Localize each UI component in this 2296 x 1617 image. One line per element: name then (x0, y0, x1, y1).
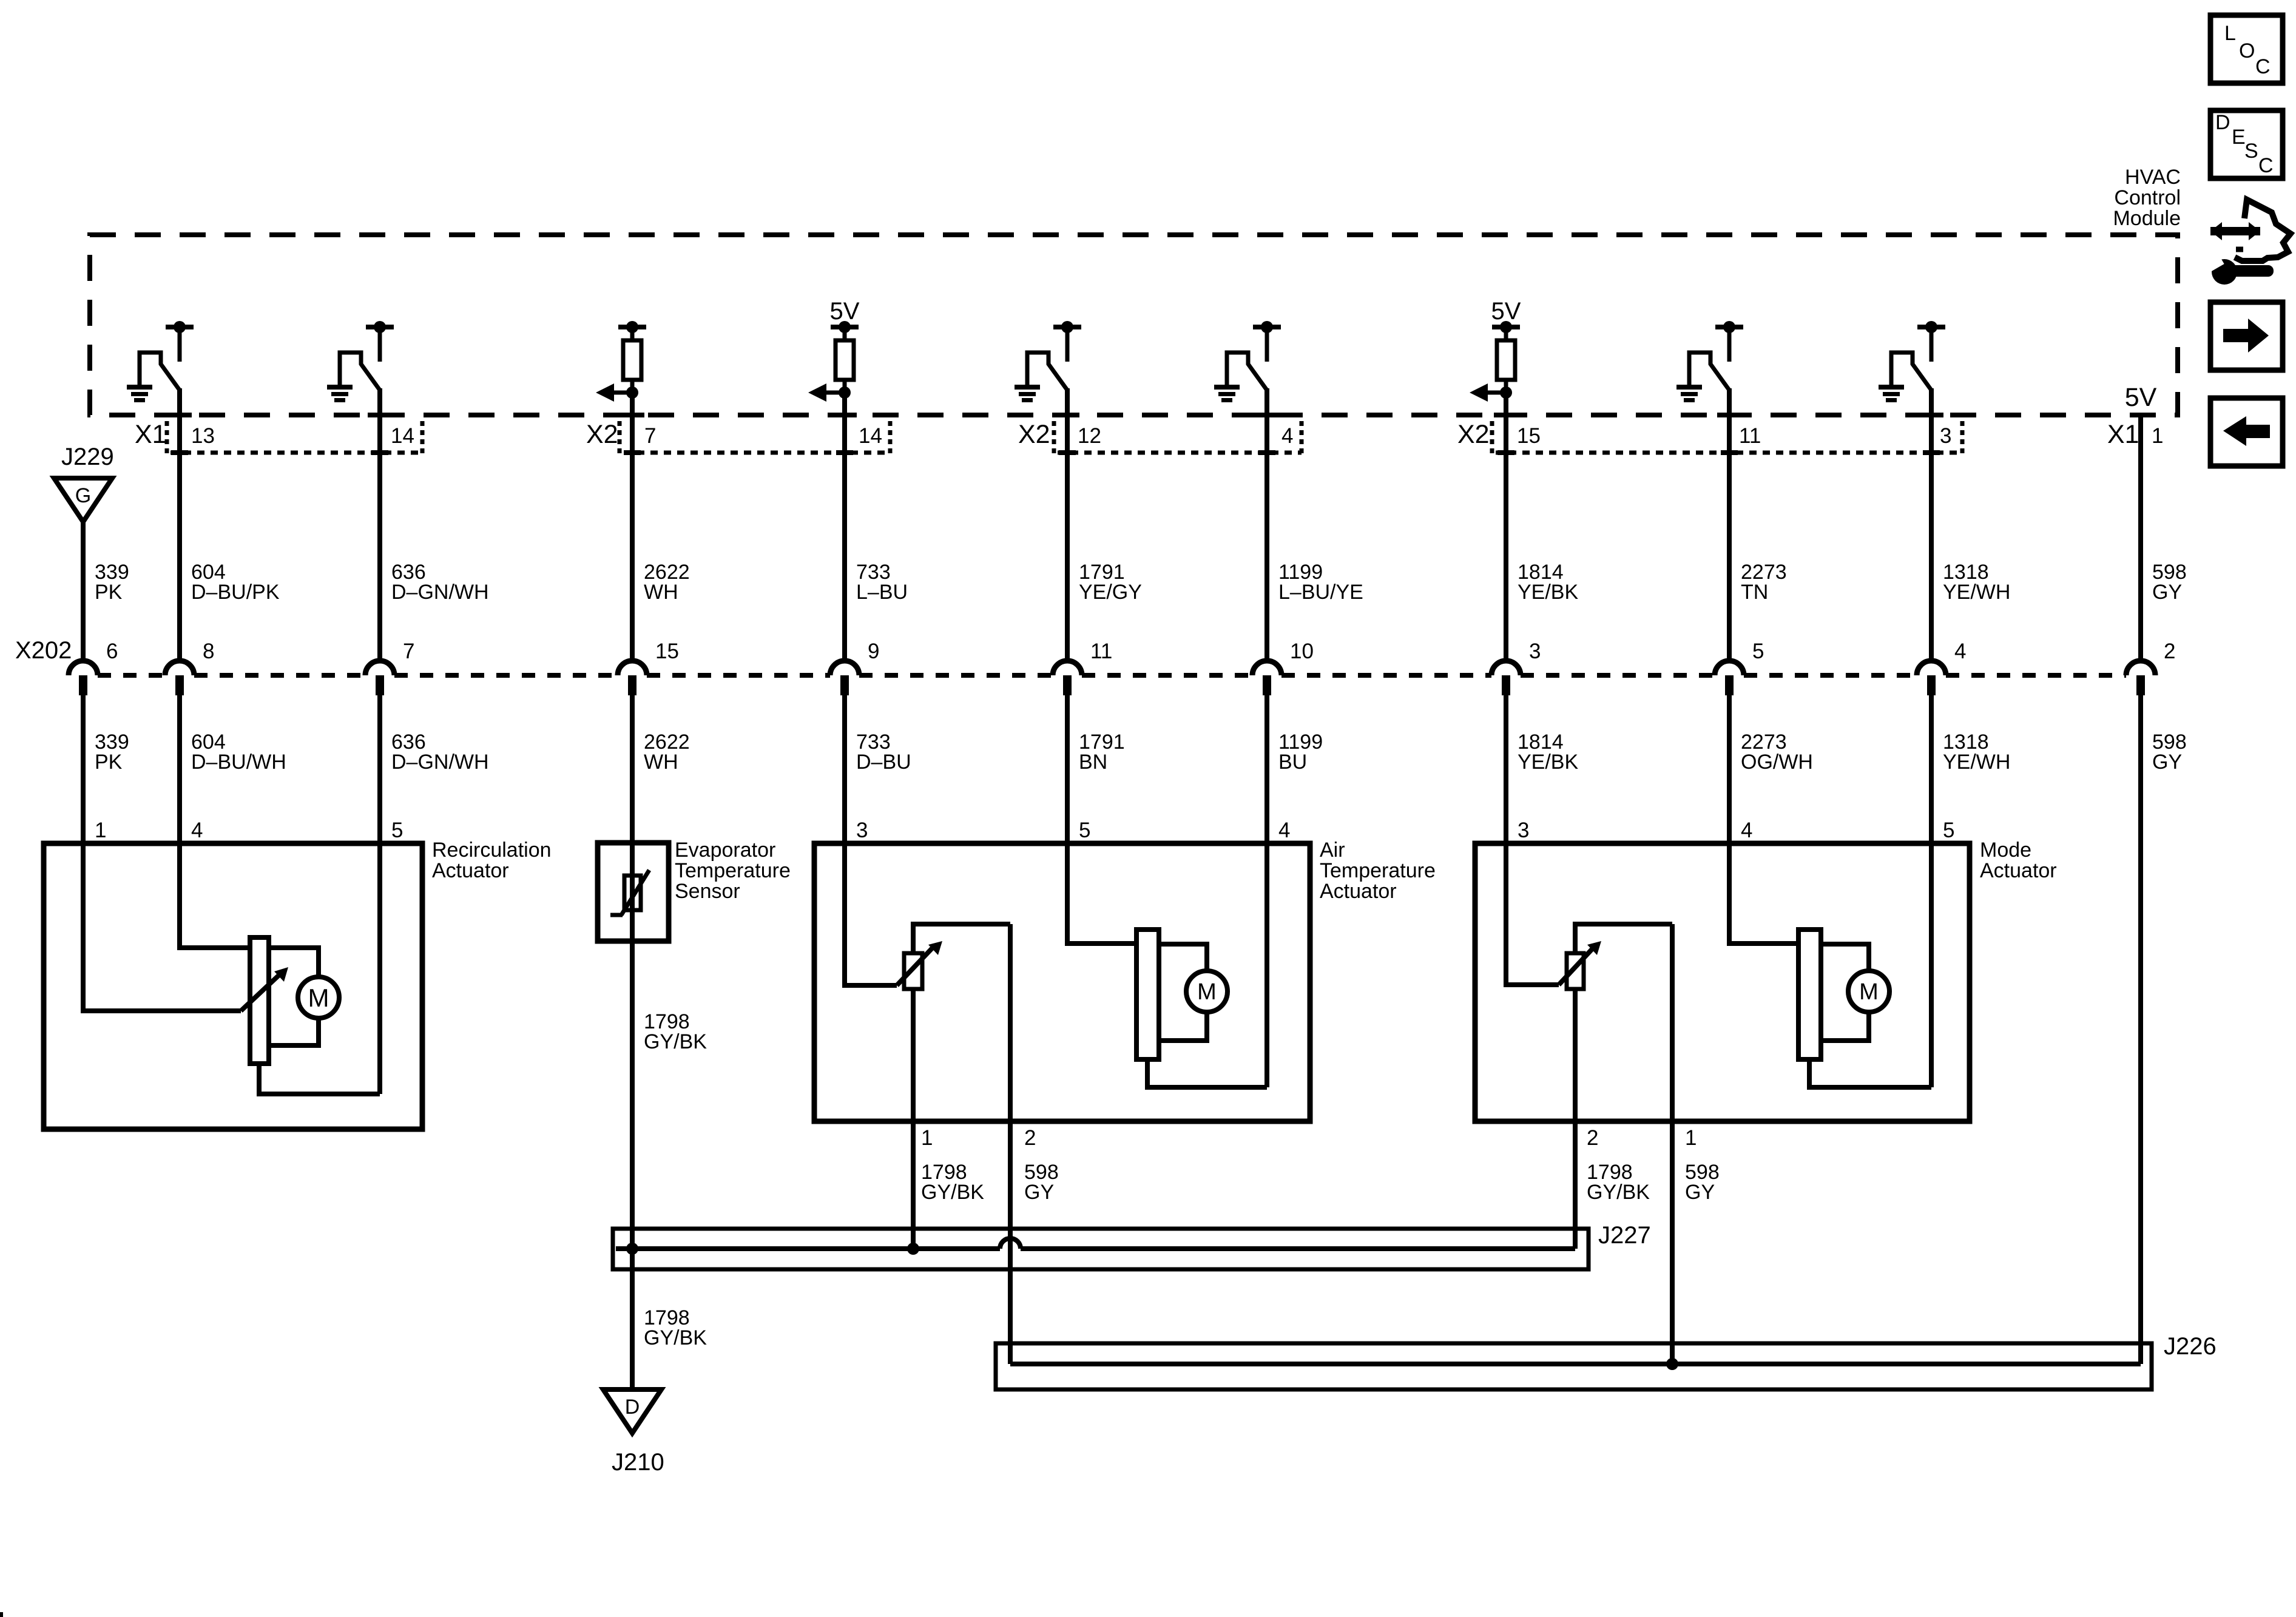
wire 636 D–GN/WH from X202 down (377, 695, 382, 843)
mode pin 1 wire (598 GY) (1670, 924, 1675, 1364)
R2 signal junction dot (839, 387, 851, 399)
svg-text:Actuator: Actuator (1320, 880, 1397, 903)
J227 junction dot (1798 GY/BK evaporator) (626, 1243, 638, 1255)
S6 switch blade (1891, 353, 1931, 390)
label 598 GY (mode pin 1) (1685, 1161, 1720, 1204)
wire 1199 BU from X202 down (1264, 695, 1269, 843)
mode pin 5 wire (1929, 843, 1934, 1087)
svg-text:TN: TN (1741, 581, 1768, 604)
svg-text:13: 13 (191, 424, 215, 448)
svg-text:1: 1 (2152, 424, 2163, 448)
air temp pin 4 wire (1264, 843, 1269, 1087)
wire 1798 GY/BK from evaporator sensor (630, 941, 635, 1389)
label 2622 WH (upper) (644, 561, 690, 604)
X202 terminal 5 (wire 2273 TN) (1715, 661, 1744, 695)
mode motor feed wire (pin 4) (1729, 843, 1798, 944)
svg-text:C: C (2255, 55, 2271, 78)
air temp motor feed wire (pin 5) (1067, 843, 1136, 944)
air temp motor M2 motor loop wires (1159, 944, 1207, 972)
svg-text:BU: BU (1278, 751, 1307, 774)
DESC icon box (2210, 110, 2283, 178)
svg-text:14: 14 (859, 424, 882, 448)
label 604 D–BU/PK (upper) (191, 561, 280, 604)
svg-text:1: 1 (921, 1126, 933, 1150)
svg-text:Temperature: Temperature (1320, 859, 1436, 882)
svg-text:5: 5 (1943, 819, 1954, 842)
svg-text:Air: Air (1320, 839, 1345, 862)
air temp motor M2 motor M (1186, 971, 1227, 1012)
Mode Actuator label (1980, 839, 2057, 882)
svg-text:GY/BK: GY/BK (1587, 1181, 1650, 1204)
label 1814 YE/BK (upper) (1518, 561, 1578, 604)
S2 wire to pin (377, 388, 382, 417)
R1 signal out arrow (614, 391, 632, 395)
S1 wire to pin (177, 388, 182, 417)
svg-text:GY: GY (2152, 581, 2182, 604)
svg-text:3: 3 (856, 819, 868, 842)
R2 signal out arrow (826, 391, 845, 395)
svg-text:BN: BN (1079, 751, 1107, 774)
R1 resistor body (630, 329, 635, 341)
recirc wiper arrow (241, 967, 288, 1011)
svg-text:L–BU/YE: L–BU/YE (1278, 581, 1363, 604)
S3 switch stub (1065, 329, 1070, 362)
svg-text:Actuator: Actuator (1980, 859, 2057, 882)
wire 339 PK from X202 down (81, 695, 86, 843)
mode wiper arrow (1559, 948, 1593, 985)
Air Temperature Actuator label (1320, 839, 1436, 903)
svg-text:GY: GY (1024, 1181, 1054, 1204)
label 1318 YE/WH (lower) (1943, 731, 2010, 774)
S1 ground symbol (127, 385, 152, 390)
R1 signal junction dot (626, 387, 638, 399)
svg-text:G: G (75, 484, 91, 507)
svg-text:5V: 5V (830, 298, 860, 325)
HVAC Control Module box U1 (dashed outline) (90, 235, 2178, 415)
svg-text:15: 15 (1517, 424, 1541, 448)
forward arrow icon box (2210, 302, 2283, 370)
wire 733 D–BU from X202 down (842, 695, 847, 843)
LOC icon box (2210, 15, 2283, 83)
svg-text:GY/BK: GY/BK (644, 1030, 707, 1053)
label 339 PK (upper) (95, 561, 129, 604)
R3 wire to pin (1504, 393, 1508, 417)
S5 supply bar (1715, 325, 1743, 329)
label 2273 TN (upper) (1741, 561, 1787, 604)
S5 switch stub (1727, 329, 1732, 362)
svg-text:J227: J227 (1598, 1222, 1651, 1249)
label 2622 WH (lower) (644, 731, 690, 774)
X202 terminal 7 (wire 636 D-GN/WH) (365, 661, 394, 695)
recirc pin 5 wire (377, 843, 382, 1094)
mode pot top wire to pin 1 (1575, 924, 1672, 953)
X202 terminal 3 (wire 1814 YE/BK) (1491, 661, 1521, 695)
svg-text:1: 1 (95, 819, 106, 842)
svg-text:D–BU: D–BU (856, 751, 911, 774)
S2 ground symbol (327, 385, 353, 390)
label 1199 BU (lower) (1278, 731, 1323, 774)
wire 2273 TN from module to X202 (1727, 415, 1732, 662)
label 636 D–GN/WH (lower) (391, 731, 489, 774)
svg-text:D: D (2215, 111, 2230, 134)
svg-text:2: 2 (1024, 1126, 1036, 1150)
svg-text:YE/BK: YE/BK (1518, 751, 1578, 774)
5V reference output (pin X1-1) (2125, 383, 2157, 417)
svg-text:J226: J226 (2164, 1333, 2217, 1360)
svg-text:M: M (1197, 979, 1217, 1005)
mode motor M3 armature element (1798, 930, 1821, 1059)
svg-text:X202: X202 (15, 637, 72, 664)
wire 2622 WH from X202 down (630, 695, 635, 843)
svg-text:C: C (2258, 154, 2274, 177)
recirc motor M1 (298, 977, 339, 1018)
svg-text:5V: 5V (1491, 298, 1521, 325)
switch S4 to ground (pin X2-4) (1214, 321, 1281, 417)
svg-text:WH: WH (644, 581, 678, 604)
S2 switch stub (378, 329, 382, 362)
S2 supply bar (366, 325, 394, 329)
HVAC Control Module label (2113, 166, 2181, 230)
svg-text:PK: PK (95, 581, 123, 604)
svg-text:3: 3 (1940, 424, 1951, 448)
svg-text:6: 6 (106, 640, 118, 663)
svg-text:5: 5 (391, 819, 403, 842)
X202 dashed harness line (98, 673, 2126, 678)
svg-text:WH: WH (644, 751, 678, 774)
thermistor symbol (610, 843, 649, 941)
svg-text:YE/BK: YE/BK (1518, 581, 1578, 604)
S3 supply bar (1053, 325, 1081, 329)
S4 wire to pin (1264, 388, 1269, 417)
svg-text:10: 10 (1290, 640, 1314, 663)
X1 connector dotted outline (167, 421, 422, 454)
svg-text:L–BU: L–BU (856, 581, 908, 604)
S5 wire to pin (1727, 388, 1732, 417)
recirc potentiometer element (250, 937, 269, 1064)
svg-text:X1: X1 (135, 420, 167, 449)
wire 598 GY from X202 down (2138, 695, 2143, 1364)
svg-text:D–GN/WH: D–GN/WH (391, 751, 489, 774)
mode motor M3 motor M (1848, 971, 1889, 1012)
recirc pot return wire to pin 5 (259, 1064, 380, 1094)
label 598 GY (air temp pin 2) (1024, 1161, 1059, 1204)
pull-up resistor R3 with 5V (pin X2-15) (1470, 298, 1521, 417)
svg-text:HVAC: HVAC (2125, 166, 2181, 189)
S4 switch blade (1227, 353, 1267, 390)
svg-text:GY: GY (2152, 751, 2182, 774)
X202 terminal 9 (wire 733 L-BU) (830, 661, 859, 695)
J226 junction dot (mode pin 1 598 GY) (1666, 1358, 1678, 1370)
svg-text:4: 4 (191, 819, 203, 842)
S5 ground symbol (1676, 385, 1702, 390)
label 733 D–BU (lower) (856, 731, 911, 774)
S6 ground symbol (1879, 385, 1904, 390)
wire 1318 YE/WH from X202 down (1929, 695, 1934, 843)
ground J210 (603, 1389, 664, 1476)
svg-text:4: 4 (1281, 424, 1293, 448)
S3 ground symbol (1015, 385, 1040, 390)
svg-text:Mode: Mode (1980, 839, 2031, 862)
svg-text:OG/WH: OG/WH (1741, 751, 1813, 774)
air temp potentiometer element (904, 953, 922, 989)
svg-text:Sensor: Sensor (675, 880, 740, 903)
X2 connector dotted outline (pins 12,4) (1054, 421, 1302, 454)
X202 terminal 4 (wire 1318 YE/WH) (1917, 661, 1946, 695)
wire 2273 OG/WH from X202 down (1727, 695, 1732, 843)
mode wiper feed wire (pin 3) (1506, 843, 1559, 985)
switch S5 to ground (pin X2-11) (1676, 321, 1743, 417)
svg-text:8: 8 (203, 640, 214, 663)
X202 terminal 8 (wire 604 D-BU/PK) (165, 661, 194, 695)
svg-text:L: L (2224, 22, 2236, 45)
wire 604 D-BU/PK from module to X202 (177, 415, 182, 662)
svg-text:11: 11 (1739, 424, 1761, 448)
svg-text:X1: X1 (2107, 420, 2139, 449)
diagnostic hand-and-wrench icon (2207, 200, 2291, 285)
R2 resistor body (843, 329, 847, 341)
air temp pot bottom wire to pin 1 (911, 989, 916, 1249)
label 1798 GY/BK (mode pin 2) (1587, 1161, 1650, 1204)
svg-text:X2: X2 (1457, 420, 1490, 449)
svg-text:14: 14 (391, 424, 414, 448)
air temp motor M2 return wire (1147, 1059, 1267, 1087)
svg-text:D: D (625, 1396, 640, 1419)
svg-text:E: E (2232, 126, 2246, 149)
R2 wire to pin (842, 393, 847, 417)
svg-text:4: 4 (1741, 819, 1752, 842)
svg-text:YE/WH: YE/WH (1943, 581, 2010, 604)
Mode Actuator box (1475, 843, 1970, 1121)
svg-text:2: 2 (1587, 1126, 1598, 1150)
svg-text:Actuator: Actuator (432, 859, 509, 882)
label 1798 GY/BK (above J227) (644, 1010, 707, 1053)
page corner mark (0, 1612, 3, 1617)
X2 connector dotted outline (pins 7,14) (620, 421, 890, 454)
svg-text:5: 5 (1079, 819, 1090, 842)
X202 terminal 2 (wire 598 GY) (2126, 661, 2155, 695)
label 1791 BN (lower) (1079, 731, 1125, 774)
wire 1814 YE/BK from X202 down (1504, 695, 1508, 843)
svg-text:5V: 5V (2125, 383, 2157, 412)
J227 junction dot (air temp pin 1) (907, 1243, 919, 1255)
label 1798 GY/BK (air temp pin 1) (921, 1161, 984, 1204)
label 598 GY (upper) (2152, 561, 2187, 604)
R1 supply bar (618, 325, 646, 329)
wire 636 D-GN/WH from module to X202 (377, 415, 382, 662)
Recirculation Actuator box (44, 843, 422, 1129)
svg-text:GY/BK: GY/BK (921, 1181, 984, 1204)
air temp wiper feed wire (pin 3) (845, 843, 897, 985)
svg-text:Module: Module (2113, 207, 2181, 230)
svg-text:7: 7 (403, 640, 414, 663)
module pin tick marks on dashed edge (167, 413, 1943, 417)
S1 switch blade (140, 353, 180, 390)
svg-text:YE/GY: YE/GY (1079, 581, 1142, 604)
wire 2622 WH from module to X202 (630, 415, 635, 662)
S1 switch stub (178, 329, 182, 362)
wire 598 GY from module to X202 (2138, 415, 2143, 662)
wire 339 PK from J229 to X202-6 (81, 522, 86, 662)
X202 terminal 15 (wire 2622 WH) (618, 661, 647, 695)
svg-text:1: 1 (1685, 1126, 1697, 1150)
svg-text:M: M (308, 984, 329, 1012)
svg-text:X2: X2 (1018, 420, 1050, 449)
svg-text:J210: J210 (612, 1449, 664, 1476)
air temp wiper arrow (897, 948, 932, 985)
svg-text:15: 15 (655, 640, 679, 663)
svg-text:Recirculation: Recirculation (432, 839, 552, 862)
svg-text:4: 4 (1954, 640, 1966, 663)
wire 1791 BN from X202 down (1065, 695, 1070, 843)
R3 supply bar (1492, 325, 1520, 329)
label 2273 OG/WH (lower) (1741, 731, 1813, 774)
air temp pin 2 wire (598 GY) (1008, 924, 1013, 1364)
splice J226 bus (996, 1343, 2152, 1389)
wire 1318 YE/WH from module to X202 (1929, 415, 1934, 662)
wire 733 L-BU from module to X202 (842, 415, 847, 662)
S1 supply bar (166, 325, 194, 329)
pull-up resistor R1 (pin X2-7, evaporator sensor input) (596, 321, 646, 417)
wire 1791 YE/GY from module to X202 (1065, 415, 1070, 662)
S4 supply bar (1253, 325, 1281, 329)
label 1199 L–BU/YE (upper) (1278, 561, 1363, 604)
switch S3 to ground (pin X2-12) (1015, 321, 1081, 417)
mode motor M3 return wire (1809, 1059, 1931, 1087)
svg-text:D–BU/PK: D–BU/PK (191, 581, 280, 604)
svg-text:Control: Control (2114, 186, 2181, 209)
label 1798 GY/BK (below J227) (644, 1306, 707, 1349)
svg-text:O: O (2239, 39, 2255, 62)
svg-text:D–BU/WH: D–BU/WH (191, 751, 286, 774)
label 604 D–BU/WH (lower) (191, 731, 286, 774)
Air Temperature Actuator box (814, 843, 1310, 1121)
label 1814 YE/BK (lower) (1518, 731, 1578, 774)
label 598 GY (lower) (2152, 731, 2187, 774)
wire 604 D–BU/WH from X202 down (177, 695, 182, 843)
sub-connector wire crossing ticks (171, 450, 1940, 455)
Evaporator Temperature Sensor label (675, 839, 791, 903)
recirc motor loop wires (269, 948, 319, 976)
svg-text:5: 5 (1752, 640, 1764, 663)
recirc pot feed wire (pin 4) (180, 843, 250, 948)
recirc wiper feed wire (pin 1) (83, 843, 241, 1011)
splice J227 bus (613, 1229, 1589, 1269)
wire 1814 YE/BK from module to X202 (1504, 415, 1508, 662)
svg-text:11: 11 (1090, 640, 1112, 663)
S2 switch blade (340, 353, 380, 390)
S5 switch blade (1689, 353, 1729, 390)
R3 signal out arrow (1488, 391, 1506, 395)
svg-text:7: 7 (644, 424, 656, 448)
R3 signal junction dot (1500, 387, 1512, 399)
S3 switch blade (1027, 353, 1067, 390)
svg-text:3: 3 (1529, 640, 1541, 663)
label 733 L–BU (upper) (856, 561, 908, 604)
R3 resistor body (1504, 329, 1508, 341)
S6 wire to pin (1929, 388, 1934, 417)
wire 1199 L-BU/YE from module to X202 (1264, 415, 1269, 662)
mode potentiometer element (1567, 953, 1584, 989)
S6 switch stub (1930, 329, 1934, 362)
svg-text:2: 2 (2164, 640, 2175, 663)
svg-text:12: 12 (1078, 424, 1101, 448)
switch S2 to ground (pin X1-14) (327, 321, 394, 417)
svg-text:Evaporator: Evaporator (675, 839, 775, 862)
S6 supply bar (1917, 325, 1945, 329)
R2 supply bar (831, 325, 859, 329)
S4 ground symbol (1214, 385, 1240, 390)
label 636 D–GN/WH (upper) (391, 561, 489, 604)
mode motor M3 motor loop wires (1821, 944, 1869, 972)
switch S6 to ground (pin X2-3) (1879, 321, 1945, 417)
X202 terminal 11 (wire 1791 YE/GY) (1053, 661, 1082, 695)
svg-text:PK: PK (95, 751, 123, 774)
X202 terminal 10 (wire 1199 L-BU/YE) (1252, 661, 1281, 695)
svg-text:Temperature: Temperature (675, 859, 791, 882)
mode pot bottom wire to pin 2 (1573, 989, 1578, 1249)
S3 wire to pin (1065, 388, 1070, 417)
svg-text:S: S (2244, 140, 2258, 163)
Recirculation Actuator label (432, 839, 552, 882)
svg-text:X2: X2 (586, 420, 618, 449)
ground J229 (54, 444, 114, 522)
svg-text:D–GN/WH: D–GN/WH (391, 581, 489, 604)
air temp pot top wire to pin 2 (913, 924, 1010, 953)
svg-text:4: 4 (1278, 819, 1290, 842)
svg-text:GY: GY (1685, 1181, 1715, 1204)
pull-up resistor R2 with 5V (pin X2-14) (808, 298, 860, 417)
air temp motor M2 armature element (1136, 930, 1159, 1059)
S4 switch stub (1265, 329, 1269, 362)
R1 wire to pin (630, 393, 635, 417)
svg-text:M: M (1859, 979, 1879, 1005)
svg-text:J229: J229 (61, 444, 114, 470)
label 1791 YE/GY (upper) (1079, 561, 1142, 604)
svg-text:YE/WH: YE/WH (1943, 751, 2010, 774)
X2 connector dotted outline (pins 15,11,3) (1492, 421, 1962, 454)
label 339 PK (lower) (95, 731, 129, 774)
svg-text:GY/BK: GY/BK (644, 1326, 707, 1349)
svg-text:9: 9 (868, 640, 879, 663)
back arrow icon box (2210, 398, 2283, 466)
Evaporator Temperature Sensor box B1 (598, 843, 669, 941)
svg-text:3: 3 (1518, 819, 1529, 842)
X202 terminal 6 (wire 339 PK) (69, 661, 98, 695)
label 1318 YE/WH (upper) (1943, 561, 2010, 604)
switch S1 to ground (pin X1-13) (127, 321, 194, 417)
